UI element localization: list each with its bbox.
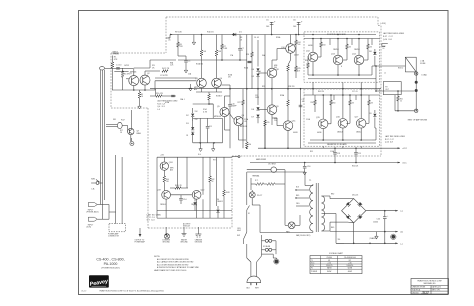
svg-text:C4 .05: C4 .05 <box>254 37 259 39</box>
svg-text:SW1: SW1 <box>91 179 95 181</box>
svg-text:R13B 47: R13B 47 <box>216 96 222 98</box>
wire shield runs <box>100 70 102 205</box>
svg-text:HEAVY MARK NOT USED FOR CS-400: HEAVY MARK NOT USED FOR CS-400 <box>154 269 186 272</box>
junction B- <box>369 243 371 245</box>
wire stage2 out <box>222 84 231 86</box>
transistor Q20 <box>192 190 201 199</box>
svg-text:Q-14 D-8: Q-14 D-8 <box>383 39 392 41</box>
svg-text:R27: R27 <box>238 102 241 104</box>
svg-text:400W: 400W <box>348 271 353 273</box>
svg-text:(0): (0) <box>401 232 404 234</box>
svg-text:4.7K: 4.7K <box>203 111 208 113</box>
svg-text:SW: SW <box>237 235 240 237</box>
svg-text:GROUND: GROUND <box>195 242 203 244</box>
wire Q10 links <box>290 35 292 44</box>
resistor R25 <box>295 60 297 66</box>
input connector J3 <box>88 217 97 221</box>
svg-text:40636: 40636 <box>308 45 313 47</box>
thermistor RT1 <box>256 183 264 186</box>
resistor R7 <box>221 35 223 45</box>
wire protect bus2 <box>157 210 232 212</box>
svg-text:R36: R36 <box>305 60 308 62</box>
resistor R1 <box>112 56 114 63</box>
wire Q6 down <box>239 139 247 141</box>
input jack J1 <box>99 67 104 70</box>
wire Q18 vert <box>163 157 165 162</box>
svg-text:(+): (+) <box>401 211 404 213</box>
wire collector Q2 <box>144 71 146 75</box>
svg-text:L1: L1 <box>384 73 386 75</box>
wire left col x243 <box>242 89 244 100</box>
wire Q13 vert <box>337 39 339 56</box>
svg-text:R-16 C-9: R-16 C-9 <box>157 103 165 105</box>
wire output bus vertical <box>415 72 417 111</box>
svg-text:C2 47PF: C2 47PF <box>160 75 169 77</box>
resistor R24 <box>295 35 297 41</box>
power switch SW2 <box>244 232 247 239</box>
wire protect box sides <box>156 157 158 218</box>
wire emitter bus <box>112 89 155 91</box>
transistor Q14 <box>354 55 364 65</box>
wire out bus right <box>375 66 377 79</box>
bridge diode c <box>346 214 351 219</box>
svg-text:.33: .33 <box>371 103 373 105</box>
svg-text:100: 100 <box>266 26 269 28</box>
junction c1819 <box>334 147 336 149</box>
resistor R30 <box>320 42 323 47</box>
svg-text:R55: R55 <box>310 151 313 153</box>
svg-text:2N3904: 2N3904 <box>191 204 197 206</box>
svg-text:N1: N1 <box>328 260 330 262</box>
wire Q12 vert <box>312 39 314 53</box>
svg-text:PILOT: PILOT <box>257 195 263 197</box>
svg-text:R49 220: R49 220 <box>318 91 324 93</box>
wire to grounds <box>200 143 202 147</box>
thermistor RT2 <box>267 183 275 186</box>
transistor Q6 <box>234 116 243 125</box>
wire output arrow <box>139 228 141 234</box>
svg-text:344: 344 <box>274 67 277 69</box>
wire h y60 <box>178 59 247 61</box>
wire B- rail <box>250 162 400 164</box>
svg-text:254: 254 <box>274 120 277 122</box>
wire pos emitter bus <box>308 74 372 76</box>
transistor Q3 <box>197 78 207 88</box>
ground common <box>165 230 167 233</box>
svg-text:40409: 40409 <box>294 55 299 57</box>
svg-text:R-57 C-17: R-57 C-17 <box>383 36 393 38</box>
wire B+ out <box>366 210 398 212</box>
wire stage link <box>149 60 151 68</box>
svg-text:R28 220: R28 220 <box>288 86 294 88</box>
wire Q17 vert <box>360 95 362 119</box>
svg-text:C20: C20 <box>377 219 380 221</box>
svg-text:R5: R5 <box>141 94 143 96</box>
svg-text:MAIN XFMR: MAIN XFMR <box>256 158 267 161</box>
wire Q5 collector <box>224 96 226 107</box>
resistor R31 <box>346 44 349 49</box>
wire protect box top <box>157 156 232 158</box>
wire bias vertical <box>131 110 133 129</box>
wire +VCC top rail <box>170 34 376 36</box>
svg-text:T1: T1 <box>311 260 313 262</box>
border frame <box>79 11 449 295</box>
junction dots on rail <box>201 34 203 36</box>
svg-text:.1: .1 <box>242 50 244 52</box>
diode D1 <box>233 33 236 36</box>
svg-text:R38: R38 <box>383 46 386 48</box>
svg-text:(+70V): (+70V) <box>380 23 386 25</box>
transistor Q15 <box>318 119 328 129</box>
positive output board dashed box <box>304 32 380 82</box>
ground earth <box>183 230 185 232</box>
svg-text:R37: R37 <box>311 102 314 104</box>
svg-text:( POWER MODULE ): ( POWER MODULE ) <box>101 268 120 270</box>
resistor R22 <box>287 65 290 71</box>
svg-text:R26: R26 <box>246 54 249 56</box>
svg-text:R9 10K: R9 10K <box>175 32 182 34</box>
ac plug prongs <box>250 283 252 286</box>
svg-text:POSITIVE I/O BOARD: POSITIVE I/O BOARD <box>327 33 347 36</box>
svg-text:CONNECTOR: CONNECTOR <box>108 236 120 238</box>
svg-text:C1 10: C1 10 <box>116 65 122 67</box>
output terminal T4 <box>415 109 418 112</box>
output terminal T2 <box>415 81 418 84</box>
svg-text:FUSE: FUSE <box>420 63 426 65</box>
wire ac line bus <box>262 253 274 255</box>
capacitor C15 <box>207 118 209 126</box>
svg-text:220: 220 <box>267 122 270 124</box>
svg-text:SHT 1 OF 1: SHT 1 OF 1 <box>432 290 441 292</box>
wire Q8 links <box>271 60 273 68</box>
wire zener bus <box>193 142 223 144</box>
svg-text:R29: R29 <box>262 86 265 88</box>
transistor Q5 <box>220 107 229 116</box>
wire Q14 vert <box>358 39 360 56</box>
svg-text:DWG NO.: DWG NO. <box>412 292 420 294</box>
svg-text:ALL CAPACITORS IN MFD UNLESS N: ALL CAPACITORS IN MFD UNLESS NOTED <box>157 261 194 264</box>
svg-text:100: 100 <box>293 26 296 28</box>
wire bridge top in <box>342 198 348 200</box>
svg-text:R10 1K: R10 1K <box>207 32 214 34</box>
svg-text:MPSU56: MPSU56 <box>240 126 247 128</box>
svg-text:-VCC: -VCC <box>402 163 407 165</box>
svg-text:800W: 800W <box>327 271 332 273</box>
svg-text:NOTE:: NOTE: <box>154 256 161 258</box>
svg-text:12000/75: 12000/75 <box>326 265 333 267</box>
resistor R36 <box>307 63 310 68</box>
module boundary dashed right <box>377 17 379 26</box>
svg-text:E: E <box>341 66 342 68</box>
wire Q9 links <box>271 89 273 105</box>
fuse F2 <box>265 248 268 251</box>
svg-text:Q-14 D-8: Q-14 D-8 <box>385 141 393 143</box>
resistor R43 <box>223 190 226 196</box>
wire box gap links <box>312 82 314 95</box>
wire fb down <box>155 89 157 96</box>
svg-text:REST OF AMP SHOWN: REST OF AMP SHOWN <box>408 118 428 121</box>
zener D2 <box>192 108 194 113</box>
wire q11 bottom <box>287 142 289 148</box>
resistor R13 <box>208 92 210 94</box>
capacitor C13 <box>247 61 252 63</box>
svg-text:C15: C15 <box>209 126 212 128</box>
svg-text:D6: D6 <box>217 199 219 201</box>
bridge diode b <box>358 202 363 207</box>
junction neg board <box>322 94 324 96</box>
wire rail drop C <box>304 163 306 167</box>
svg-text:YEL: YEL <box>338 239 341 241</box>
svg-text:GROUND: GROUND <box>162 242 170 244</box>
wire neg board bottom bus <box>308 142 376 144</box>
transistor Q11 <box>283 121 293 131</box>
svg-text:2N3904: 2N3904 <box>160 204 166 206</box>
wire fan link <box>284 184 286 225</box>
svg-text:10PF: 10PF <box>255 97 259 99</box>
svg-text:B: B <box>307 64 308 66</box>
svg-text:+VCC: +VCC <box>402 148 408 150</box>
transistor Q16 <box>338 119 348 129</box>
svg-text:MPS: MPS <box>170 168 173 170</box>
svg-text:LAST NO. USED: LAST NO. USED <box>147 213 162 216</box>
svg-text:.33: .33 <box>349 47 351 49</box>
svg-text:(PHONE JACK): (PHONE JACK) <box>87 211 99 214</box>
svg-text:2N6254: 2N6254 <box>356 132 362 134</box>
resistor R35 <box>368 100 371 105</box>
zener D3 <box>191 127 194 130</box>
svg-text:18-222: 18-222 <box>81 291 86 293</box>
svg-text:.33: .33 <box>352 103 354 105</box>
capacitor C11 <box>299 104 303 106</box>
resistor R6 <box>177 35 179 43</box>
wire board tie columns <box>329 39 331 46</box>
svg-text:C16: C16 <box>307 166 310 168</box>
trim pot R18 <box>130 142 134 146</box>
svg-text:+/-70: +/-70 <box>327 263 331 265</box>
svg-text:C3: C3 <box>188 61 190 63</box>
capacitor C14 <box>180 195 182 198</box>
svg-text:R41 4.7K: R41 4.7K <box>175 185 183 187</box>
svg-text:C.B.: C.B. <box>91 188 95 190</box>
svg-text:2N6254: 2N6254 <box>337 132 343 134</box>
power amp connector <box>109 224 125 232</box>
wire mid bus <box>150 88 381 90</box>
capacitor C1 <box>114 67 121 69</box>
wire primary taps <box>247 171 305 173</box>
svg-text:.05: .05 <box>244 121 246 123</box>
capacitor C6 <box>298 22 300 35</box>
svg-text:R54 10K: R54 10K <box>352 166 359 168</box>
transistor Q9 <box>267 105 277 115</box>
svg-text:LAST REF DESIG USED: LAST REF DESIG USED <box>157 100 178 103</box>
wire x300 vert <box>300 89 302 149</box>
wire long vertical C <box>264 35 266 149</box>
svg-text:POWER AMP: POWER AMP <box>135 241 146 244</box>
svg-text:N2: N2 <box>349 260 351 262</box>
wire pos board bottom bus <box>308 78 376 80</box>
svg-text:C18: C18 <box>337 153 340 155</box>
wire long vertical B <box>257 40 259 64</box>
zener D6 <box>257 89 259 105</box>
svg-text:Q-4 D-3: Q-4 D-3 <box>157 106 164 108</box>
bridge rectifier D10-D13 <box>342 199 366 223</box>
wire neg top cols <box>314 94 316 96</box>
wire grounds bus <box>165 227 167 230</box>
svg-text:2N6254: 2N6254 <box>354 49 360 51</box>
zener D5 <box>256 74 259 77</box>
wire cable drop A <box>115 155 117 224</box>
wire box2 feeds <box>322 146 324 148</box>
wire to output network <box>376 65 405 67</box>
capacitor C3 <box>185 56 187 60</box>
wire f bus <box>275 241 277 254</box>
svg-text:POWER: POWER <box>311 271 318 273</box>
transistor Q1 <box>129 76 139 86</box>
wire signal to stage2 <box>155 77 197 79</box>
wire rail entry <box>169 35 171 39</box>
resistor R4 <box>162 70 168 73</box>
svg-text:302: 302 <box>422 290 430 295</box>
svg-text:CKT BKR: CKT BKR <box>268 164 276 166</box>
junction out <box>397 90 399 92</box>
transistor Q13 <box>333 55 343 65</box>
bridge diode a <box>346 202 351 207</box>
wire Q5-Q6 link <box>229 113 234 120</box>
svg-text:C19: C19 <box>358 153 361 155</box>
svg-text:D10-13: D10-13 <box>352 195 358 197</box>
thermal breaker CB2 <box>271 167 277 173</box>
svg-text:A 2N6254 PHYSICALLY ATTACHED T: A 2N6254 PHYSICALLY ATTACHED TO HEAT SIN… <box>157 266 200 269</box>
svg-text:C14: C14 <box>183 199 186 201</box>
ground at rail start <box>193 35 195 41</box>
wire Q16 vert <box>342 95 344 119</box>
transformer T1 core <box>315 183 317 232</box>
transistor Q18 <box>160 162 168 170</box>
svg-text:R25: R25 <box>298 68 301 70</box>
zener D7 <box>256 115 259 118</box>
svg-text:R40: R40 <box>166 179 169 181</box>
wire neg out <box>372 139 376 141</box>
voltage table <box>310 256 362 274</box>
wire zcol b <box>222 118 224 142</box>
transistor Q7 thermal <box>128 128 134 134</box>
svg-text:ALL DIODES IN4003 UNLESS NOTED: ALL DIODES IN4003 UNLESS NOTED <box>157 263 189 266</box>
wire secondary mid rail <box>330 231 398 233</box>
resistor R51 <box>397 91 399 96</box>
wire h y104 <box>193 103 214 105</box>
wire input bus <box>122 68 124 71</box>
svg-text:+/-45: +/-45 <box>348 263 352 265</box>
wire B+ rail <box>258 147 400 149</box>
svg-text:WHT: WHT <box>255 287 259 289</box>
title block <box>411 279 449 295</box>
svg-text:VOLTAGE CHART: VOLTAGE CHART <box>329 252 343 255</box>
transistor Q19 <box>162 190 171 199</box>
wire protect exit <box>232 156 238 158</box>
svg-text:F1 8A SB: F1 8A SB <box>263 245 271 248</box>
resistor R21 <box>264 120 267 126</box>
junction gap <box>312 88 314 90</box>
output terminal T1 <box>415 72 418 75</box>
svg-text:MPSU06: MPSU06 <box>214 116 221 118</box>
wire ac hot <box>246 210 248 227</box>
capacitor C19 <box>355 148 357 152</box>
svg-text:R56 10: R56 10 <box>398 68 403 70</box>
svg-text:C17 .05: C17 .05 <box>352 91 358 93</box>
svg-text:60HZ: 60HZ <box>237 230 241 232</box>
transformer T1 primary <box>310 186 313 194</box>
resistor R57 bracket <box>382 43 388 45</box>
svg-text:R42: R42 <box>212 179 215 181</box>
junctions mid bus <box>229 88 231 90</box>
svg-text:10000/50: 10000/50 <box>346 265 353 267</box>
svg-text:R44: R44 <box>323 45 326 47</box>
wire protect box bottom <box>157 217 232 219</box>
wire zcol a <box>199 118 201 142</box>
svg-text:12000: 12000 <box>373 221 378 223</box>
svg-text:10: 10 <box>383 48 385 50</box>
svg-text:(XLR): (XLR) <box>87 227 92 229</box>
module boundary dashed bottom <box>148 227 232 229</box>
transistor Q4 <box>212 78 222 88</box>
svg-text:(-): (-) <box>401 243 403 245</box>
resistor R23 <box>287 89 289 100</box>
output terminal T3 <box>415 89 418 92</box>
capacitor C18 <box>334 148 336 152</box>
svg-text:1V RMS: 1V RMS <box>113 53 120 55</box>
svg-text:LAST REF DESIG USED: LAST REF DESIG USED <box>383 32 405 35</box>
wire protect links <box>165 199 167 218</box>
module boundary dashed top <box>166 16 378 18</box>
ground supply <box>376 232 378 234</box>
resistor R11 <box>201 35 203 51</box>
svg-text:R50: R50 <box>333 103 336 105</box>
wire cable drop B <box>121 157 123 224</box>
capacitor C7 <box>239 35 241 49</box>
ground G3 <box>212 147 214 149</box>
svg-text:390: 390 <box>248 144 251 146</box>
input connector J2 <box>88 203 97 207</box>
resistor R34 <box>349 100 352 105</box>
svg-text:PA-1000: PA-1000 <box>104 262 118 266</box>
resistor R16 <box>156 95 162 98</box>
resistor R20 <box>246 140 248 142</box>
transformer T1 secondary <box>322 196 325 203</box>
diode D14 <box>217 206 219 209</box>
ground chassis <box>197 230 199 234</box>
capacitor C8 <box>170 95 176 97</box>
svg-text:2N6254: 2N6254 <box>333 49 339 51</box>
output inductor box L1 <box>405 57 416 72</box>
bridge diode d <box>358 214 363 219</box>
wire pos board top rail <box>304 38 380 40</box>
wire connector links <box>108 205 110 220</box>
wire arrow entry <box>170 34 172 36</box>
svg-text:F1: F1 <box>311 268 313 270</box>
wire lamp link <box>251 190 253 192</box>
module boundary dashed left step <box>165 17 167 53</box>
ground G2 <box>200 147 202 149</box>
svg-text:40410: 40410 <box>293 132 298 134</box>
diode D8 <box>374 49 376 52</box>
wire c10 down <box>229 118 231 130</box>
chassis stud <box>391 235 395 239</box>
fuse F1 <box>265 239 268 242</box>
resistor R2 <box>121 71 124 77</box>
wire stud link <box>272 254 274 258</box>
wire bias links <box>122 125 127 127</box>
svg-text:S.G.: S.G. <box>198 154 202 156</box>
